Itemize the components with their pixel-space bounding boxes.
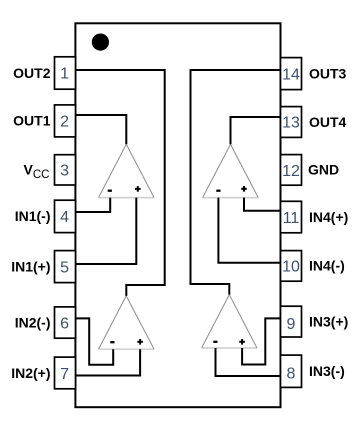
svg-text:6: 6 <box>60 315 69 332</box>
svg-text:OUT4: OUT4 <box>309 114 347 130</box>
svg-text:4: 4 <box>60 209 69 226</box>
svg-text:12: 12 <box>282 163 300 180</box>
svg-text:IN4(-): IN4(-) <box>309 258 345 274</box>
svg-text:IN4(+): IN4(+) <box>309 209 348 225</box>
svg-text:VCC: VCC <box>24 162 50 181</box>
svg-text:IN2(+): IN2(+) <box>11 365 50 381</box>
svg-text:GND: GND <box>308 162 339 178</box>
svg-text:10: 10 <box>282 259 300 276</box>
svg-text:OUT3: OUT3 <box>309 65 347 81</box>
svg-text:9: 9 <box>287 316 296 333</box>
svg-text:2: 2 <box>60 114 69 131</box>
svg-text:7: 7 <box>60 366 69 383</box>
svg-text:14: 14 <box>282 66 300 83</box>
svg-text:5: 5 <box>60 259 69 276</box>
svg-text:OUT2: OUT2 <box>13 65 51 81</box>
svg-text:OUT1: OUT1 <box>13 113 51 129</box>
svg-text:IN3(-): IN3(-) <box>309 363 345 379</box>
svg-text:IN1(+): IN1(+) <box>11 258 50 274</box>
svg-text:13: 13 <box>282 115 300 132</box>
svg-text:1: 1 <box>60 66 69 83</box>
svg-text:11: 11 <box>283 210 300 227</box>
svg-text:8: 8 <box>287 366 296 383</box>
svg-text:IN1(-): IN1(-) <box>15 208 51 224</box>
svg-text:IN2(-): IN2(-) <box>15 314 51 330</box>
svg-text:IN3(+): IN3(+) <box>309 313 348 329</box>
svg-text:3: 3 <box>60 163 69 180</box>
